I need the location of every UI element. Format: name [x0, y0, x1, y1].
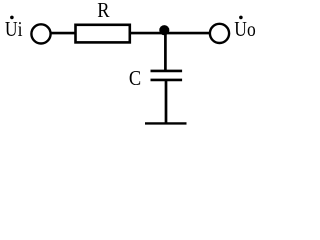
capacitor C bottom plate	[151, 79, 183, 82]
svg-text:Ui: Ui	[5, 17, 23, 41]
wire: resistor R right lead to output terminal through node A	[128, 32, 219, 35]
wire: input terminal to resistor R left lead	[41, 32, 78, 35]
ground / bottom terminal bar	[145, 122, 187, 124]
capacitor C top plate	[151, 70, 183, 73]
svg-text:R: R	[97, 0, 109, 22]
wire: node A down to capacitor C top plate	[164, 30, 167, 71]
terminal: input (open circle)	[31, 24, 50, 43]
svg-text:C: C	[129, 66, 141, 90]
resistor R (body)	[76, 25, 130, 43]
label Ui (phasor U-dot, subscript i)	[5, 16, 23, 41]
terminal: output (open circle)	[210, 24, 229, 43]
label Uo (phasor U-dot, subscript o)	[234, 16, 255, 41]
wire: capacitor C bottom plate down to bottom terminal bar	[165, 80, 168, 124]
svg-text:Uo: Uo	[234, 17, 255, 41]
node A (junction dot)	[159, 25, 169, 35]
